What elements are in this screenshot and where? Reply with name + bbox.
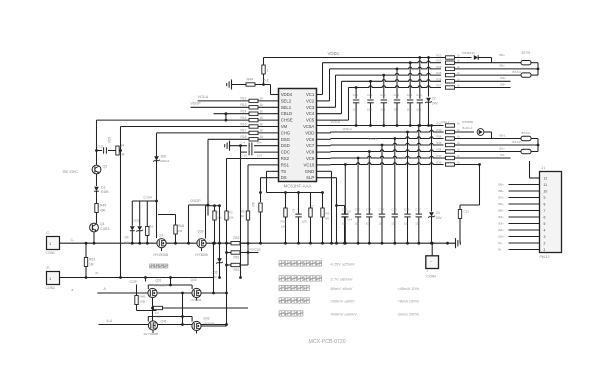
svg-text:VDD1: VDD1: [328, 51, 340, 56]
svg-text:SEL1: SEL1: [281, 105, 292, 110]
svg-text:B1+: B1+: [500, 147, 506, 151]
svg-text:≈40mA 10%: ≈40mA 10%: [398, 286, 420, 291]
resistor R37: [446, 156, 455, 159]
svg-text:R1E: R1E: [155, 315, 161, 319]
svg-text:HY3606: HY3606: [204, 322, 215, 326]
wire C- rail: [60, 242, 456, 244]
svg-text:DSD: DSD: [281, 143, 290, 148]
svg-text:7HY3606: 7HY3606: [154, 284, 167, 288]
wire R14 to pin: [258, 113, 279, 115]
resistor R59 on RS1: [246, 211, 249, 220]
wire Q31 source down: [152, 298, 154, 325]
svg-text:VDD4: VDD4: [281, 92, 293, 97]
pin 7 wire: [509, 210, 540, 212]
svg-text:200mV ±8mV: 200mV ±8mV: [331, 299, 356, 304]
pin 4 wire: [509, 229, 540, 231]
svg-text:VC9: VC9: [306, 156, 315, 161]
svg-text:1k: 1k: [260, 122, 264, 126]
resistor R12 1k: [249, 99, 258, 102]
wire row1 jog: [478, 57, 491, 59]
wire RS2 net: [227, 158, 279, 160]
wire R18 to pin: [258, 138, 279, 140]
svg-text:HY1906B: HY1906B: [154, 253, 169, 257]
svg-text:104: 104: [367, 108, 372, 112]
svg-text:B3+: B3+: [501, 82, 507, 86]
svg-text:MCX-PCB-0720: MCX-PCB-0720: [309, 339, 346, 345]
capacitor C17 104: [418, 126, 420, 214]
zener D6: [219, 243, 221, 277]
svg-text:R24: R24: [437, 65, 442, 69]
transistor Q31 HY3606: [148, 288, 157, 297]
svg-text:24V: 24V: [436, 216, 443, 220]
wire R17 to pin: [258, 132, 279, 134]
svg-text:R38: R38: [437, 161, 442, 165]
connector CON2 P-: [47, 272, 60, 285]
svg-text:VM: VM: [281, 124, 288, 129]
svg-text:R15: R15: [241, 116, 247, 120]
wire A-A rail: [99, 324, 227, 326]
resistor R18 1k: [249, 138, 258, 141]
svg-text:104: 104: [257, 141, 262, 145]
resistor R53: [227, 264, 232, 266]
svg-text:R27: R27: [437, 84, 442, 88]
svg-text:1M: 1M: [89, 263, 94, 267]
wire VC1 riser: [317, 94, 323, 96]
svg-text:CON1: CON1: [46, 251, 56, 255]
wire P rail tail: [145, 278, 147, 282]
resistor R13 1k: [249, 106, 258, 109]
resistor R26: [446, 80, 455, 83]
capacitor C24 104: [396, 69, 398, 99]
capacitor C13 104: [368, 152, 370, 214]
svg-text:12: 12: [544, 176, 548, 180]
svg-text:C21: C21: [367, 93, 373, 97]
svg-text:C17: C17: [415, 208, 421, 212]
wire Q40 drain: [214, 292, 227, 294]
svg-text:10: 10: [355, 222, 359, 226]
svg-text:10: 10: [379, 222, 383, 226]
op-amp U2 protection IC body: [279, 89, 317, 182]
wire R12 to pin: [258, 100, 279, 102]
diode D12: [455, 131, 475, 133]
svg-text:10: 10: [404, 222, 408, 226]
svg-text:2: 2: [544, 241, 546, 245]
wire RS1 right bus: [247, 243, 249, 265]
svg-text:C16: C16: [404, 208, 410, 212]
svg-text:104: 104: [407, 108, 412, 112]
resistor R4B 10R: [136, 285, 138, 311]
svg-text:R64R134: R64R134: [463, 51, 476, 55]
resistor R36: [446, 150, 455, 153]
wire gate link: [206, 205, 220, 207]
transistor Q1: [90, 223, 99, 232]
svg-text:VDD: VDD: [305, 130, 314, 135]
wire TS loop: [267, 192, 323, 194]
svg-text:3mSs 200%: 3mSs 200%: [398, 312, 420, 317]
svg-text:24V: 24V: [432, 102, 439, 106]
diode D11: [455, 57, 472, 59]
svg-text:DSGP: DSGP: [191, 199, 202, 203]
wire VM long: [121, 126, 250, 128]
svg-text:J1: J1: [542, 166, 546, 170]
svg-text:25K IOHC: 25K IOHC: [63, 170, 79, 174]
svg-text:R44: R44: [247, 78, 254, 82]
capacitor C16 104: [407, 132, 409, 214]
wire SLP pin down: [317, 177, 337, 179]
svg-text:BT-F3: BT-F3: [522, 131, 530, 135]
svg-text:B5+: B5+: [500, 64, 506, 68]
svg-text:RS2: RS2: [281, 156, 290, 161]
wire Q1 to C- rail: [93, 232, 95, 243]
svg-text:R5: R5: [241, 210, 245, 214]
svg-text:103: 103: [302, 220, 307, 224]
svg-text:MC61HF-AAA: MC61HF-AAA: [284, 184, 312, 189]
resistor R24: [446, 67, 455, 70]
svg-text:CDC: CDC: [281, 150, 290, 155]
svg-text:≈8mA 100%: ≈8mA 100%: [398, 299, 420, 304]
wire VC5 riser: [317, 119, 349, 121]
svg-text:10: 10: [391, 222, 395, 226]
svg-text:C22: C22: [380, 93, 386, 97]
capacitor C26 104: [419, 58, 421, 99]
svg-text:R13: R13: [241, 103, 247, 107]
svg-text:B6+: B6+: [500, 53, 506, 57]
svg-text:R53: R53: [234, 268, 240, 272]
svg-text:Q1: Q1: [100, 222, 105, 226]
svg-text:VC5: VC5: [108, 137, 112, 144]
wire row5 stub: [455, 80, 511, 82]
svg-text:B+: B+: [499, 241, 503, 245]
svg-text:R33: R33: [437, 128, 442, 132]
transistor Q2: [92, 165, 101, 174]
resistor R34: [446, 137, 455, 140]
wire VM vertical: [120, 127, 122, 278]
pin 5 wire: [509, 223, 540, 225]
wire DSGP stub: [207, 205, 209, 216]
capacitor C10 104: [239, 144, 242, 147]
resistor R37 10K: [214, 206, 216, 244]
wire VC7 rail: [317, 145, 331, 147]
svg-text:1k: 1k: [260, 129, 264, 133]
wire R13 to pin: [258, 106, 279, 108]
svg-text:B4+: B4+: [499, 215, 505, 219]
svg-text:R14: R14: [241, 110, 247, 114]
wire row6 stub: [455, 87, 511, 89]
ground GND near R44: [231, 80, 233, 90]
svg-text:R52: R52: [234, 236, 240, 240]
wire VC9 rail: [317, 158, 331, 160]
svg-text:RT1: RT1: [311, 205, 315, 211]
svg-text:C23: C23: [394, 93, 400, 97]
svg-text:R3: R3: [229, 211, 233, 215]
svg-text:2HY1906B: 2HY1906B: [144, 332, 159, 336]
table protection parameters: [279, 261, 284, 266]
svg-text:CON4: CON4: [427, 275, 437, 279]
svg-text:2.7V ±80mV: 2.7V ±80mV: [331, 277, 353, 282]
pin 10 wire: [509, 190, 540, 192]
svg-text:VC5: VC5: [306, 118, 315, 123]
resistor R6B 1M: [158, 214, 176, 216]
wire R16 to pin: [258, 126, 279, 128]
wire row7 to R31: [455, 164, 480, 166]
capacitor C14 104: [381, 145, 383, 214]
net label R59Z1B: [248, 252, 259, 254]
capacitor C15 104: [394, 139, 396, 214]
svg-text:B-: B-: [499, 248, 502, 252]
svg-text:DS: DS: [281, 175, 287, 180]
resistor R61 1M: [85, 243, 87, 277]
svg-text:R23: R23: [437, 59, 442, 63]
wire CBLD jog: [214, 113, 250, 115]
svg-text:Q42: Q42: [204, 317, 210, 321]
svg-text:VC8: VC8: [306, 150, 315, 155]
wire RS2 down: [226, 265, 228, 325]
svg-text:D4: D4: [125, 236, 129, 240]
ground GND right end: [455, 238, 457, 248]
svg-text:B3+: B3+: [499, 222, 505, 226]
wire gate node down: [219, 206, 221, 244]
wire CON4 stub: [431, 243, 433, 255]
connector CON1 C-: [47, 237, 60, 250]
svg-text:VC-V5: VC-V5: [369, 137, 378, 141]
svg-text:C13: C13: [97, 145, 103, 149]
svg-text:1k: 1k: [260, 97, 264, 101]
wire gate rail CG4: [132, 200, 158, 202]
wire CHG long: [157, 132, 250, 134]
svg-text:D3: D3: [101, 186, 105, 190]
svg-text:GND: GND: [305, 169, 315, 174]
zener Z06: [154, 156, 159, 160]
svg-text:6: 6: [544, 215, 546, 219]
pin 8 wire: [509, 203, 540, 205]
svg-text:9K: 9K: [326, 217, 330, 221]
svg-text:1k: 1k: [260, 110, 264, 114]
resistor R16 1k: [249, 125, 258, 128]
svg-text:B3-L: B3-L: [500, 133, 507, 137]
svg-text:R17: R17: [241, 129, 247, 133]
svg-text:R36: R36: [437, 148, 442, 152]
wire gate bus Q41-Q42: [148, 316, 192, 318]
capacitor C14 104: [230, 145, 248, 147]
svg-text:VC4: VC4: [306, 111, 315, 116]
svg-text:C12: C12: [355, 208, 361, 212]
svg-text:a: a: [72, 288, 74, 292]
svg-text:Z2: Z2: [432, 97, 436, 101]
svg-text:VC1: VC1: [306, 92, 315, 97]
svg-text:5: 5: [544, 222, 546, 226]
svg-text:Q40: Q40: [191, 278, 197, 282]
svg-text:C25: C25: [416, 93, 422, 97]
svg-text:B6+: B6+: [499, 202, 505, 206]
svg-text:COP: COP: [130, 280, 138, 284]
svg-text:1k: 1k: [260, 103, 264, 107]
wire VC8 rail: [317, 151, 331, 153]
resistor R31: [479, 165, 481, 206]
svg-text:TS: TS: [281, 169, 287, 174]
svg-text:R16: R16: [241, 122, 247, 126]
svg-text:R51: R51: [234, 256, 240, 260]
pin 6 wire: [509, 216, 540, 218]
wire P- rail: [60, 277, 214, 279]
svg-text:Q41: Q41: [161, 320, 167, 324]
transistor Q40 HY3606: [192, 288, 201, 297]
svg-text:C8: C8: [292, 208, 296, 212]
svg-text:R52-2: R52-2: [442, 120, 450, 124]
wire B1 rail right: [444, 151, 509, 153]
svg-text:VDDP: VDDP: [191, 101, 202, 105]
svg-text:104: 104: [353, 108, 358, 112]
svg-text:R34: R34: [437, 135, 442, 139]
wire TS net: [267, 170, 279, 172]
capacitor C12 104: [357, 158, 359, 214]
zener ZD2: [139, 201, 141, 226]
resistor R17 1k: [249, 131, 258, 134]
svg-text:C-4: C-4: [241, 141, 246, 145]
capacitor C13: [97, 150, 103, 152]
svg-text:Q2: Q2: [103, 165, 108, 169]
jumper BT-F4: [455, 74, 521, 76]
svg-text:R76R90: R76R90: [463, 120, 474, 124]
svg-text:4: 4: [544, 228, 546, 232]
pin 2 wire: [509, 242, 540, 244]
svg-text:RS1: RS1: [281, 162, 290, 167]
svg-text:1k: 1k: [260, 116, 264, 120]
pin 9 wire: [509, 197, 540, 199]
wire row mid to bus: [455, 144, 539, 146]
svg-text:R61: R61: [89, 258, 95, 262]
resistor R27: [446, 86, 455, 89]
resistor R45: [96, 200, 98, 224]
svg-text:VC10: VC10: [304, 162, 315, 167]
svg-text:1: 1: [267, 69, 269, 73]
svg-text:VC5A: VC5A: [303, 124, 314, 129]
svg-text:4.25V ±25mV: 4.25V ±25mV: [331, 262, 356, 267]
transistor Q42 HY3606: [192, 321, 201, 330]
svg-text:80mV ±8mV: 80mV ±8mV: [331, 286, 353, 291]
svg-text:R18: R18: [241, 135, 247, 139]
svg-text:1K: 1K: [241, 214, 245, 218]
svg-text:C20: C20: [353, 93, 359, 97]
svg-text:R5: R5: [149, 225, 153, 229]
resistor R57: [146, 201, 148, 243]
svg-text:1C4: 1C4: [257, 154, 263, 158]
svg-text:3: 3: [544, 235, 546, 239]
pin 3 wire: [509, 236, 540, 238]
transistor Q3 HY1906B: [157, 239, 166, 248]
svg-text:CHSE: CHSE: [281, 118, 293, 123]
resistor R32: [446, 124, 455, 127]
svg-text:400mV ±80mV: 400mV ±80mV: [331, 312, 358, 317]
svg-text:VC5-A: VC5-A: [198, 95, 209, 99]
svg-text:B1+: B1+: [499, 235, 505, 239]
wire VC5A rail mid: [317, 125, 444, 127]
resistor R43: [263, 58, 265, 85]
diode D4: [131, 201, 133, 226]
wire row3 to bus: [455, 68, 539, 70]
svg-text:8: 8: [544, 202, 546, 206]
svg-text:R25: R25: [437, 71, 442, 75]
svg-text:104: 104: [394, 108, 399, 112]
wire DSG vertical: [207, 139, 209, 205]
wire VC6 rail: [317, 138, 331, 140]
capacitor C23 104: [383, 75, 385, 99]
svg-text:11: 11: [544, 183, 548, 187]
resistor R38 10K: [225, 211, 228, 220]
svg-text:C1815: C1815: [100, 227, 110, 231]
svg-text:B5+: B5+: [499, 209, 505, 213]
svg-text:R37: R37: [437, 154, 442, 158]
wire SEL1 net: [191, 106, 250, 108]
svg-text:B7+: B7+: [499, 196, 505, 200]
resistor R39 9K: [322, 193, 324, 244]
wire R44 to VDD4 pin: [270, 85, 272, 95]
svg-text:VC6: VC6: [306, 137, 315, 142]
resistor R14 1k: [249, 112, 258, 115]
resistor R44: [232, 84, 271, 86]
wire DSGP loop: [189, 204, 209, 206]
svg-text:Q39: Q39: [198, 230, 204, 234]
wire VC10 rail: [317, 164, 331, 166]
zener Z2 24V: [428, 58, 430, 97]
svg-text:B+DA-F: B+DA-F: [463, 126, 473, 130]
svg-text:E6K11: E6K11: [161, 159, 170, 163]
svg-text:HY3606: HY3606: [191, 298, 202, 302]
svg-text:C31: C31: [464, 210, 470, 214]
transistor Q39 HY3606: [197, 239, 206, 248]
svg-text:C9: C9: [347, 210, 351, 214]
wire Q42 drain: [201, 325, 226, 327]
svg-text:SEL2: SEL2: [281, 98, 292, 103]
svg-text:VC7: VC7: [306, 143, 315, 148]
svg-text:10K: 10K: [281, 225, 286, 229]
svg-text:R45: R45: [100, 204, 106, 208]
wire BT bus vertical: [537, 63, 539, 75]
capacitor C9 104: [337, 205, 345, 207]
svg-text:C-G4: C-G4: [144, 196, 152, 200]
jumper BT-F5: [455, 62, 521, 64]
svg-text:R2B: R2B: [281, 220, 287, 224]
svg-text:C14: C14: [379, 208, 385, 212]
svg-text:1: 1: [49, 242, 51, 246]
resistor R51: [227, 252, 232, 254]
wire VC3 riser: [317, 106, 336, 108]
wire gate to Q3: [156, 201, 158, 238]
svg-text:C13: C13: [366, 208, 372, 212]
diode D3: [94, 187, 99, 191]
svg-text:Z4: Z4: [436, 211, 440, 215]
svg-text:C11: C11: [342, 208, 347, 212]
wire VC4 riser: [317, 113, 342, 115]
ground GND at DSD: [229, 141, 231, 151]
wire VDD1 top rail: [264, 57, 446, 59]
svg-text:12: 12: [214, 275, 218, 279]
svg-text:R6B: R6B: [178, 224, 184, 228]
wire VDD rail: [317, 132, 331, 134]
wire CHSE long: [97, 119, 250, 121]
resistor RT1: [310, 193, 312, 244]
svg-text:CHG: CHG: [281, 130, 291, 135]
svg-text:104: 104: [347, 218, 352, 222]
svg-text:R4B: R4B: [140, 295, 146, 299]
svg-text:1M: 1M: [178, 229, 183, 233]
resistor R22: [446, 56, 455, 59]
wire B0 rail right: [444, 157, 509, 159]
svg-text:R35: R35: [437, 141, 442, 145]
capacitor C8 103: [298, 193, 300, 214]
svg-text:D6: D6: [214, 271, 218, 275]
wire BT bus vertical 2: [537, 139, 539, 152]
wire RS1 net: [248, 164, 279, 166]
